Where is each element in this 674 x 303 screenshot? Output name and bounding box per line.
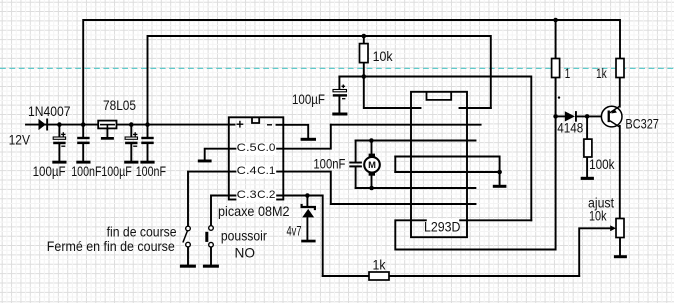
svg-text:C.5: C.5 <box>237 142 257 154</box>
svg-text:C.4: C.4 <box>237 165 257 177</box>
svg-text:fin de course: fin de course <box>107 225 177 240</box>
svg-text:1k: 1k <box>596 66 607 81</box>
svg-text:100µF: 100µF <box>101 164 132 179</box>
svg-text:100µF: 100µF <box>33 164 66 179</box>
svg-text:C.3: C.3 <box>237 189 257 201</box>
svg-text:100µF: 100µF <box>292 92 325 107</box>
svg-text:4v7: 4v7 <box>287 223 302 238</box>
svg-text:10k: 10k <box>589 209 607 224</box>
svg-text:L293D: L293D <box>424 220 461 235</box>
svg-text:picaxe 08M2: picaxe 08M2 <box>218 204 290 219</box>
svg-text:100nF: 100nF <box>313 156 345 171</box>
svg-text:10k: 10k <box>373 49 393 64</box>
svg-text:4148: 4148 <box>557 120 583 135</box>
svg-text:100k: 100k <box>589 157 614 172</box>
svg-text:1k: 1k <box>373 258 386 273</box>
svg-text:100nF: 100nF <box>136 164 166 179</box>
svg-text:C.0: C.0 <box>257 142 275 154</box>
svg-text:C.2: C.2 <box>257 189 275 201</box>
svg-text:12V: 12V <box>9 132 31 147</box>
svg-text:1: 1 <box>565 66 571 81</box>
svg-text:BC327: BC327 <box>625 117 659 132</box>
svg-text:100nF: 100nF <box>71 164 101 179</box>
svg-text:NO: NO <box>235 246 256 261</box>
svg-text:poussoir: poussoir <box>221 229 267 244</box>
svg-text:C.1: C.1 <box>257 165 275 177</box>
svg-text:M: M <box>368 159 376 170</box>
svg-text:78L05: 78L05 <box>103 98 136 113</box>
svg-text:1N4007: 1N4007 <box>28 104 71 119</box>
svg-text:Fermé en fin de course: Fermé en fin de course <box>47 239 175 254</box>
